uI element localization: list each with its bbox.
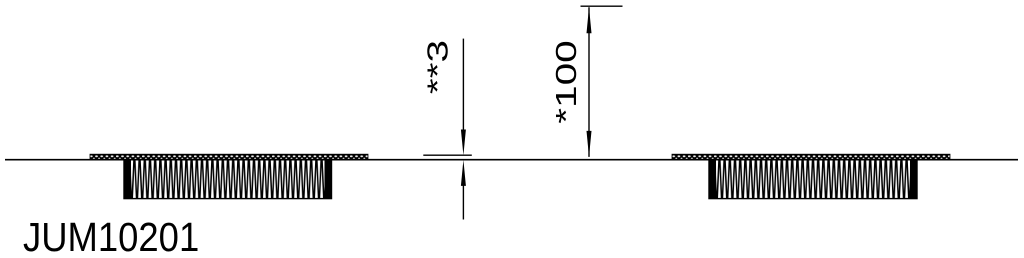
svg-text:**3: **3: [422, 40, 454, 94]
dimension **3 upper dimension line: [462, 39, 464, 142]
dimension **3 extension line (mat top surface): [423, 154, 472, 156]
left trampoline spring box: [124, 160, 332, 199]
dimension *100 bottom arrowhead (down): [587, 131, 592, 157]
right trampoline spring box: [709, 160, 917, 199]
ground line: [5, 159, 1018, 161]
dimension **3 lower arrowhead (up): [461, 160, 466, 186]
dimension **3 upper arrowhead (down): [461, 130, 466, 156]
svg-text:*100: *100: [551, 40, 583, 124]
left trampoline mat: [90, 154, 368, 160]
right trampoline mat: [672, 154, 950, 160]
svg-text:JUM10201: JUM10201: [23, 215, 199, 258]
dimension *100 dimension line: [588, 7, 590, 157]
dimension *100 top extension line: [581, 5, 623, 7]
dimension *100 top arrowhead (up): [587, 7, 592, 33]
dimension **3 lower dimension line: [462, 172, 464, 220]
